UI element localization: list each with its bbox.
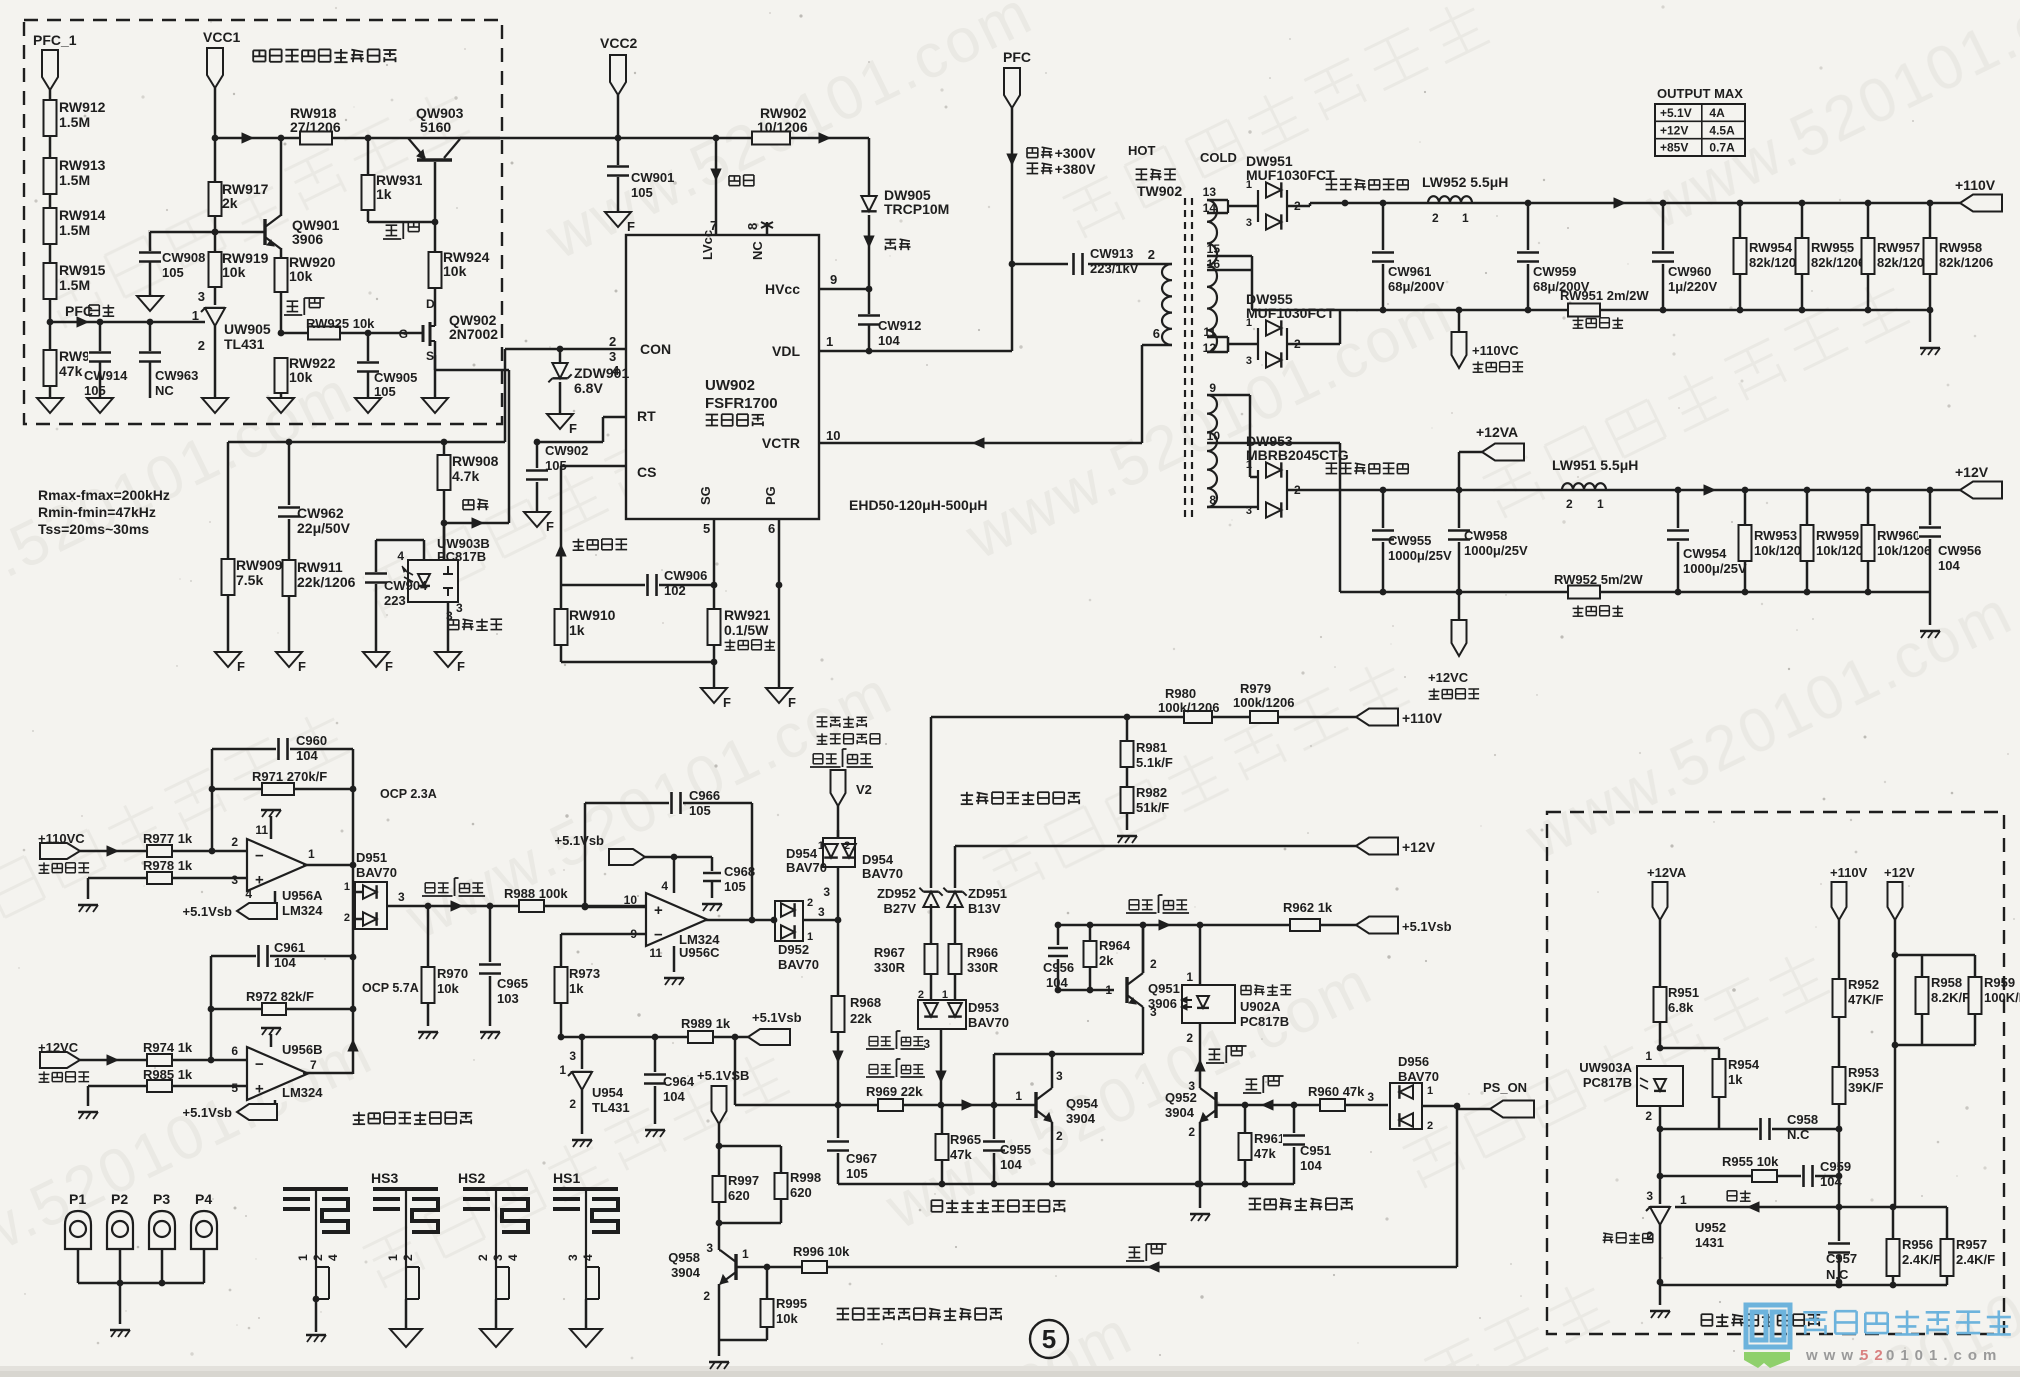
svg-text:3: 3 [1246,505,1252,517]
svg-text:D: D [426,297,435,311]
svg-text:RW912: RW912 [59,99,106,115]
svg-text:R967: R967 [874,945,905,960]
svg-text:ZDW901: ZDW901 [574,365,629,381]
svg-text:R981: R981 [1136,740,1167,755]
svg-text:R953: R953 [1848,1065,1879,1080]
svg-text:1k: 1k [569,981,584,996]
svg-text:47k: 47k [59,363,83,379]
svg-text:LM324: LM324 [282,903,323,918]
svg-text:NC: NC [155,383,174,398]
svg-text:+300V: +300V [1055,145,1097,161]
svg-text:U902A: U902A [1240,999,1281,1014]
svg-text:5.1k/F: 5.1k/F [1136,755,1173,770]
svg-text:CW904: CW904 [384,578,428,593]
svg-text:CW960: CW960 [1668,264,1711,279]
svg-text:2.4K/F: 2.4K/F [1956,1252,1995,1267]
svg-text:D954: D954 [862,852,894,867]
svg-text:+12V: +12V [1660,123,1688,137]
svg-text:C961: C961 [274,940,305,955]
svg-text:C965: C965 [497,976,528,991]
svg-text:R985 1k: R985 1k [143,1067,193,1082]
svg-text:RW957: RW957 [1877,240,1920,255]
svg-text:5: 5 [1042,1324,1056,1354]
svg-text:F: F [298,659,306,674]
svg-text:10: 10 [826,428,840,443]
svg-text:+12VC: +12VC [1428,670,1469,685]
svg-text:3: 3 [566,1254,580,1261]
svg-text:S: S [426,349,434,363]
svg-text:4: 4 [397,549,404,563]
svg-text:4: 4 [661,879,668,893]
svg-text:+110VC: +110VC [38,831,85,846]
svg-text:N.C: N.C [1787,1127,1810,1142]
svg-text:104: 104 [878,333,900,348]
svg-text:9: 9 [1209,381,1216,395]
svg-text:+12VC: +12VC [38,1040,79,1055]
svg-text:+5.1Vsb: +5.1Vsb [1402,919,1452,934]
svg-text:CW908: CW908 [162,250,205,265]
svg-text:1: 1 [192,308,199,323]
svg-text:HS1: HS1 [553,1170,580,1186]
svg-text:2: 2 [311,1254,325,1261]
svg-text:10: 10 [624,893,638,907]
svg-text:3904: 3904 [671,1265,701,1280]
svg-text:1: 1 [386,1254,400,1261]
svg-text:1: 1 [1246,179,1252,191]
svg-text:+5.1Vsb: +5.1Vsb [182,1105,232,1120]
svg-text:CW906: CW906 [664,568,707,583]
svg-text:R951: R951 [1668,985,1699,1000]
svg-text:PC817B: PC817B [1583,1075,1632,1090]
svg-text:CS: CS [637,464,656,480]
svg-text:1: 1 [1597,497,1604,511]
svg-text:4.7k: 4.7k [452,468,479,484]
svg-text:RW959: RW959 [1816,528,1859,543]
svg-text:TL431: TL431 [224,336,265,352]
svg-text:+110V: +110V [1955,177,1996,193]
svg-text:12: 12 [1203,341,1217,355]
svg-text:3: 3 [569,1049,576,1063]
svg-text:2: 2 [1432,211,1439,225]
svg-text:1: 1 [1186,970,1193,984]
svg-text:F: F [788,695,796,710]
svg-text:MUF1030FCT: MUF1030FCT [1246,305,1335,321]
svg-text:CW956: CW956 [1938,543,1981,558]
svg-text:7: 7 [710,218,717,233]
svg-text:UW903A: UW903A [1579,1060,1632,1075]
svg-text:+110V: +110V [1830,865,1868,880]
svg-text:1.5M: 1.5M [59,114,90,130]
svg-text:P3: P3 [153,1191,170,1207]
svg-text:CW961: CW961 [1388,264,1431,279]
svg-text:PFC_1: PFC_1 [33,32,77,48]
svg-text:10k: 10k [289,268,313,284]
svg-text:LM324: LM324 [282,1085,323,1100]
svg-text:R989 1k: R989 1k [681,1016,731,1031]
svg-text:PS_ON: PS_ON [1483,1080,1527,1095]
svg-text:1k: 1k [376,186,392,202]
svg-text:2: 2 [703,1289,710,1303]
svg-text:RW913: RW913 [59,157,106,173]
svg-text:R971 270k/F: R971 270k/F [252,769,327,784]
svg-text:R988 100k: R988 100k [504,886,568,901]
svg-text:2: 2 [807,897,813,909]
svg-text:1: 1 [1246,317,1252,329]
svg-text:RW960: RW960 [1877,528,1920,543]
svg-text:10k/1206: 10k/1206 [1877,543,1931,558]
svg-text:PG: PG [763,486,778,505]
svg-text:0.1/5W: 0.1/5W [724,622,769,638]
svg-text:+5.1Vsb: +5.1Vsb [554,833,604,848]
svg-text:RW951 2m/2W: RW951 2m/2W [1560,288,1649,303]
svg-text:3: 3 [609,349,616,364]
svg-text:2: 2 [198,338,205,353]
svg-text:RW952 5m/2W: RW952 5m/2W [1554,572,1643,587]
svg-text:CW962: CW962 [297,505,344,521]
svg-text:105: 105 [631,185,653,200]
svg-text:BAV70: BAV70 [968,1015,1009,1030]
svg-text:+12VA: +12VA [1647,865,1687,880]
svg-text:−: − [255,848,264,865]
svg-text:104: 104 [274,955,296,970]
svg-text:CW963: CW963 [155,368,198,383]
svg-text:1: 1 [559,1063,566,1077]
svg-text:3: 3 [706,1241,713,1255]
svg-text:16: 16 [1207,257,1221,271]
svg-text:1: 1 [1645,1049,1652,1063]
svg-text:11: 11 [255,823,268,837]
svg-text:VCTR: VCTR [762,435,800,451]
svg-text:1k: 1k [569,622,585,638]
svg-text:LVcc: LVcc [700,230,715,260]
svg-text:3906: 3906 [1148,996,1177,1011]
svg-text:2: 2 [609,334,616,349]
svg-text:−: − [654,926,663,943]
svg-text:1: 1 [826,334,833,349]
svg-text:3: 3 [1246,217,1252,229]
svg-text:EHD50-120μH-500μH: EHD50-120μH-500μH [849,497,988,513]
svg-text:FSFR1700: FSFR1700 [705,395,778,412]
svg-text:1000μ/25V: 1000μ/25V [1388,548,1452,563]
svg-text:PFC: PFC [1003,49,1031,65]
svg-text:TRCP10M: TRCP10M [884,201,949,217]
svg-text:7: 7 [310,1058,317,1072]
svg-text:UW905: UW905 [224,321,271,337]
svg-text:105: 105 [374,384,396,399]
svg-text:R979: R979 [1240,681,1271,696]
svg-text:82k/1206: 82k/1206 [1939,255,1993,270]
svg-text:HOT: HOT [1128,143,1156,158]
svg-text:1431: 1431 [1695,1235,1724,1250]
svg-text:D951: D951 [356,850,387,865]
svg-text:P2: P2 [111,1191,128,1207]
svg-text:R997: R997 [728,1173,759,1188]
svg-text:1: 1 [742,1247,749,1261]
svg-text:10/1206: 10/1206 [757,119,808,135]
svg-text:D954: D954 [786,846,818,861]
svg-text:R970: R970 [437,966,468,981]
svg-text:ZD951: ZD951 [968,886,1007,901]
svg-text:6.8k: 6.8k [1668,1000,1694,1015]
svg-text:2: 2 [844,840,850,852]
svg-text:R961: R961 [1254,1131,1285,1146]
svg-text:1.5M: 1.5M [59,277,90,293]
svg-text:+380V: +380V [1055,161,1097,177]
svg-text:2: 2 [1427,1120,1433,1132]
svg-text:+12V: +12V [1884,865,1915,880]
svg-text:2: 2 [1148,247,1155,262]
svg-text:1.5M: 1.5M [59,172,90,188]
svg-text:CON: CON [640,341,671,357]
svg-text:R978 1k: R978 1k [143,858,193,873]
svg-text:39K/F: 39K/F [1848,1080,1883,1095]
svg-text:C960: C960 [296,733,327,748]
svg-text:C957: C957 [1826,1251,1857,1266]
svg-text:RW955: RW955 [1811,240,1854,255]
svg-text:R974 1k: R974 1k [143,1040,193,1055]
svg-text:0101.com: 0101.com [1886,1347,2002,1364]
svg-text:14: 14 [1203,201,1217,215]
svg-text:ZD952: ZD952 [877,886,916,901]
svg-text:R996 10k: R996 10k [793,1244,850,1259]
svg-text:RT: RT [637,408,656,424]
svg-text:+85V: +85V [1660,141,1688,155]
svg-text:2.4K/F: 2.4K/F [1902,1252,1941,1267]
svg-text:VDL: VDL [772,343,800,359]
svg-text:104: 104 [1300,1158,1322,1173]
svg-text:UW902: UW902 [705,377,755,394]
svg-text:1: 1 [308,847,315,861]
svg-text:102: 102 [664,583,686,598]
svg-text:10: 10 [1207,429,1221,443]
svg-text:3: 3 [198,289,205,304]
svg-text:1: 1 [1462,211,1469,225]
svg-text:CW901: CW901 [631,170,674,185]
svg-text:RW910: RW910 [569,607,616,623]
svg-text:CW902: CW902 [545,443,588,458]
svg-text:C955: C955 [1000,1142,1031,1157]
svg-text:C956: C956 [1043,960,1074,975]
svg-text:RW954: RW954 [1749,240,1793,255]
svg-text:82k/1206: 82k/1206 [1811,255,1865,270]
svg-text:RW914: RW914 [59,207,106,223]
svg-text:R952: R952 [1848,977,1879,992]
svg-text:3904: 3904 [1066,1111,1096,1126]
svg-text:Q958: Q958 [668,1250,700,1265]
svg-text:RW921: RW921 [724,607,771,623]
svg-text:3: 3 [1056,1069,1063,1083]
svg-text:2: 2 [1188,1125,1195,1139]
svg-text:5: 5 [703,521,710,536]
svg-text:TW902: TW902 [1137,183,1182,199]
svg-text:100k/1206: 100k/1206 [1233,695,1294,710]
svg-text:R998: R998 [790,1170,821,1185]
svg-text:6.8V: 6.8V [574,380,603,396]
svg-text:SG: SG [698,486,713,505]
svg-text:R960 47k: R960 47k [1308,1084,1365,1099]
svg-text:B13V: B13V [968,901,1001,916]
svg-text:MBRB2045CTG: MBRB2045CTG [1246,447,1349,463]
svg-text:CW959: CW959 [1533,264,1576,279]
svg-text:CW905: CW905 [374,370,417,385]
svg-text:3: 3 [1246,355,1252,367]
svg-text:10k: 10k [222,264,246,280]
svg-text:330R: 330R [874,960,906,975]
svg-text:R977 1k: R977 1k [143,831,193,846]
svg-text:47k: 47k [950,1147,972,1162]
svg-text:4: 4 [326,1254,340,1261]
svg-text:RW908: RW908 [452,453,499,469]
svg-text:MUF1030FCT: MUF1030FCT [1246,167,1335,183]
svg-text:F: F [457,659,465,674]
svg-text:1.5M: 1.5M [59,222,90,238]
svg-text:R969 22k: R969 22k [866,1084,923,1099]
svg-text:9: 9 [830,272,837,287]
svg-text:D952: D952 [778,942,809,957]
svg-text:BAV70: BAV70 [778,957,819,972]
svg-text:10k: 10k [289,369,313,385]
svg-text:RW909: RW909 [236,557,283,573]
svg-text:3: 3 [456,601,463,615]
svg-text:RW915: RW915 [59,262,106,278]
svg-text:104: 104 [663,1089,685,1104]
svg-text:F: F [723,695,731,710]
svg-text:3: 3 [491,1254,505,1261]
svg-text:U956C: U956C [679,945,720,960]
svg-text:C966: C966 [689,788,720,803]
svg-text:+12V: +12V [1402,839,1436,855]
svg-text:11: 11 [1203,325,1216,339]
svg-text:COLD: COLD [1200,150,1237,165]
svg-text:11: 11 [649,946,662,960]
svg-text:RW911: RW911 [297,559,343,575]
svg-text:105: 105 [689,803,711,818]
svg-text:OCP 5.7A: OCP 5.7A [362,981,419,995]
svg-text:13: 13 [1203,185,1217,199]
svg-text:1: 1 [296,1254,310,1261]
svg-text:R954: R954 [1728,1057,1760,1072]
svg-text:F: F [627,219,635,234]
svg-text:0.7A: 0.7A [1709,141,1735,155]
svg-text:4: 4 [506,1254,520,1261]
svg-text:HVcc: HVcc [765,281,800,297]
svg-text:1: 1 [1015,1089,1022,1103]
svg-text:3: 3 [823,885,830,899]
svg-text:R968: R968 [850,995,881,1010]
svg-text:Q951: Q951 [1148,981,1180,996]
svg-text:+5.1Vsb: +5.1Vsb [182,904,232,919]
svg-text:HS3: HS3 [371,1170,398,1186]
svg-text:LW951 5.5μH: LW951 5.5μH [1552,457,1638,473]
svg-text:C968: C968 [724,864,755,879]
svg-text:620: 620 [790,1185,812,1200]
svg-text:R959: R959 [1984,975,2015,990]
svg-text:VCC1: VCC1 [203,29,241,45]
svg-text:Rmin-fmin=47kHz: Rmin-fmin=47kHz [38,504,156,520]
svg-text:1000μ/25V: 1000μ/25V [1683,561,1747,576]
svg-text:R957: R957 [1956,1237,1987,1252]
svg-text:6: 6 [231,1044,238,1058]
svg-text:+: + [255,1080,264,1097]
svg-text:3: 3 [1646,1189,1653,1203]
svg-text:104: 104 [1046,975,1068,990]
svg-text:−: − [255,1056,264,1073]
svg-text:4: 4 [581,1254,595,1261]
svg-text:1μ/220V: 1μ/220V [1668,279,1717,294]
svg-text:47K/F: 47K/F [1848,992,1883,1007]
svg-text:R966: R966 [967,945,998,960]
svg-text:22k: 22k [850,1011,872,1026]
svg-text:OUTPUT MAX: OUTPUT MAX [1657,86,1743,101]
svg-text:BAV70: BAV70 [862,866,903,881]
svg-text:3: 3 [231,873,238,887]
svg-text:CW914: CW914 [84,368,128,383]
svg-text:C951: C951 [1300,1143,1331,1158]
svg-text:22k/1206: 22k/1206 [297,574,356,590]
svg-text:3906: 3906 [292,231,323,247]
svg-text:1: 1 [1680,1193,1687,1207]
svg-text:B27V: B27V [883,901,916,916]
svg-text:LW952 5.5μH: LW952 5.5μH [1422,174,1508,190]
svg-text:47k: 47k [1254,1146,1276,1161]
svg-text:CW958: CW958 [1464,528,1507,543]
svg-text:3: 3 [398,890,405,904]
svg-text:104: 104 [296,748,318,763]
svg-text:RW925 10k: RW925 10k [306,316,375,331]
svg-text:R962 1k: R962 1k [1283,900,1333,915]
svg-text:+12VA: +12VA [1476,424,1518,440]
svg-text:R956: R956 [1902,1237,1933,1252]
svg-text:2: 2 [1056,1129,1063,1143]
svg-text:R995: R995 [776,1296,807,1311]
svg-text:2: 2 [1186,1031,1193,1045]
svg-text:R965: R965 [950,1132,981,1147]
svg-text:D953: D953 [968,1000,999,1015]
svg-text:104: 104 [1938,558,1960,573]
svg-text:P4: P4 [195,1191,212,1207]
svg-text:8: 8 [745,223,760,230]
svg-text:TL431: TL431 [592,1100,630,1115]
svg-text:U954: U954 [592,1085,624,1100]
svg-text:5: 5 [231,1081,238,1095]
svg-text:68μ/200V: 68μ/200V [1388,279,1445,294]
svg-text:PC817B: PC817B [1240,1014,1289,1029]
svg-text:2: 2 [1645,1109,1652,1123]
svg-text:P1: P1 [69,1191,86,1207]
svg-text:6: 6 [1153,326,1160,341]
svg-text:1: 1 [344,881,350,893]
svg-text:10k: 10k [776,1311,798,1326]
svg-text:D956: D956 [1398,1054,1429,1069]
svg-text:R958: R958 [1931,975,1962,990]
svg-text:C959: C959 [1820,1159,1851,1174]
svg-text:51k/F: 51k/F [1136,800,1169,815]
svg-text:6: 6 [768,521,775,536]
svg-text:BAV70: BAV70 [786,860,827,875]
svg-text:2k: 2k [1099,953,1114,968]
svg-text:VCC2: VCC2 [600,35,638,51]
svg-text:3: 3 [1188,1079,1195,1093]
svg-text:2: 2 [476,1254,490,1261]
svg-text:4A: 4A [1709,106,1725,120]
svg-text:2: 2 [569,1097,576,1111]
svg-text:BAV70: BAV70 [356,865,397,880]
svg-text:U956B: U956B [282,1042,322,1057]
svg-text:F: F [237,659,245,674]
svg-text:3: 3 [1367,1090,1374,1104]
svg-text:1: 1 [1427,1085,1433,1097]
svg-text:2k: 2k [222,195,238,211]
